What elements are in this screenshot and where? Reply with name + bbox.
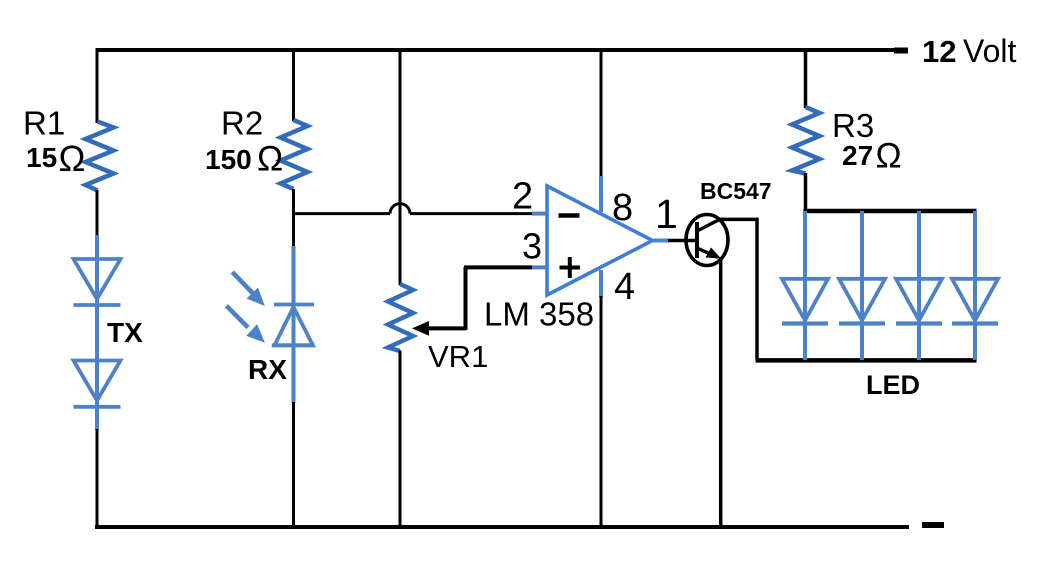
svg-text:15: 15 xyxy=(26,142,57,173)
op-amp plus input sign xyxy=(560,257,581,278)
transistor Q1 BC547 xyxy=(686,215,728,266)
diode TX1 xyxy=(74,259,121,305)
svg-text:1: 1 xyxy=(655,191,678,237)
svg-text:150: 150 xyxy=(205,144,252,175)
wire R3 top lead xyxy=(804,48,808,108)
transistor emitter arrowhead xyxy=(706,248,722,259)
svg-text:3: 3 xyxy=(522,226,542,267)
wire R2 bottom lead xyxy=(292,189,295,247)
pin 3 blue stub xyxy=(532,265,547,269)
svg-text:LM 358: LM 358 xyxy=(484,296,594,333)
wire wiper to pin3 xyxy=(464,267,468,330)
svg-text:R2: R2 xyxy=(221,105,263,142)
svg-text:4: 4 xyxy=(614,266,635,308)
wire VR1 bottom lead xyxy=(399,351,402,528)
wire from R2 node to pin 2 with hop xyxy=(294,204,534,214)
LED cathode bus bar xyxy=(756,358,977,363)
svg-text:Ω: Ω xyxy=(257,140,283,179)
resistor R2 xyxy=(281,120,308,189)
wire pin 8 from top rail xyxy=(600,48,603,178)
negative terminal dash xyxy=(922,522,944,528)
VR1 wiper arrow xyxy=(412,321,466,336)
svg-text:BC547: BC547 xyxy=(700,178,772,204)
diode TX2 xyxy=(74,361,121,407)
svg-text:27: 27 xyxy=(842,140,873,171)
svg-text:Volt: Volt xyxy=(963,33,1016,69)
wire top supply rail 12V xyxy=(96,48,908,52)
wire bottom return rail xyxy=(95,525,909,529)
wire emitter to bottom rail xyxy=(719,257,723,527)
LED D3 xyxy=(896,211,942,360)
svg-text:Ω: Ω xyxy=(59,138,86,179)
light arrow 2 into RX xyxy=(226,306,264,342)
svg-text:Ω: Ω xyxy=(876,137,902,176)
svg-text:VR1: VR1 xyxy=(428,339,488,374)
wire R1 bottom lead xyxy=(96,190,99,236)
LED D2 xyxy=(839,211,885,360)
light arrow 1 into RX xyxy=(232,272,264,305)
wire collector to LED block xyxy=(719,219,757,359)
op-amp minus input sign xyxy=(559,213,580,218)
wire TX branch (blue) xyxy=(95,235,99,430)
resistor R3 xyxy=(792,107,820,174)
photodiode RX xyxy=(272,305,315,346)
svg-text:8: 8 xyxy=(612,187,633,229)
resistor VR1 xyxy=(388,284,413,351)
wire R2 top lead xyxy=(292,48,295,121)
wire output to base xyxy=(668,239,697,243)
svg-text:2: 2 xyxy=(512,176,533,218)
pin 4 blue stub xyxy=(599,270,603,297)
svg-text:LED: LED xyxy=(866,370,920,400)
wire R1 top lead xyxy=(96,48,99,123)
svg-text:TX: TX xyxy=(107,317,143,348)
wire RX bottom to rail xyxy=(292,402,295,527)
op-amp output blue stub xyxy=(652,239,669,243)
svg-text:12: 12 xyxy=(922,34,956,69)
pin 2 blue stub xyxy=(532,212,547,216)
LED anode bus bar xyxy=(804,209,977,214)
wire RX branch (blue) xyxy=(292,246,296,403)
wire R3 bottom lead xyxy=(804,173,808,211)
wire VR1 top lead xyxy=(399,48,402,285)
svg-text:RX: RX xyxy=(248,354,287,385)
svg-text:R3: R3 xyxy=(832,107,874,144)
resistor R1 xyxy=(86,122,114,191)
wire pin 4 to bottom rail xyxy=(600,296,603,527)
svg-text:R1: R1 xyxy=(23,105,65,142)
pin 8 blue stub xyxy=(599,176,603,212)
LED D1 xyxy=(782,211,828,360)
positive terminal thick end xyxy=(894,48,908,54)
wire pin 3 lead xyxy=(464,265,533,269)
op-amp U1 LM358 triangle xyxy=(547,186,653,295)
wire TX bottom to rail xyxy=(96,429,99,527)
LED D4 xyxy=(952,211,998,360)
